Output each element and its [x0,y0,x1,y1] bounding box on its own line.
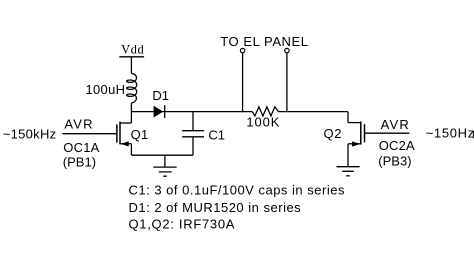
wire Vdd to inductor [130,57,132,74]
svg-text:Q2: Q2 [324,126,343,141]
svg-text:C1: 3 of 0.1uF/100V caps in se: C1: 3 of 0.1uF/100V caps in series [129,182,345,197]
svg-text:100K: 100K [246,115,280,130]
svg-text:C1: C1 [208,127,225,142]
svg-text:Q1,Q2: IRF730A: Q1,Q2: IRF730A [129,217,236,232]
wire inductor to drain node [130,103,132,112]
ground symbol 2 [337,167,360,176]
transistor Q2 source lead [348,143,361,145]
wire bus down to Q2 drain [347,112,349,123]
svg-text:D1: 2 of MUR1520 in series: D1: 2 of MUR1520 in series [129,200,302,215]
svg-text:Q1: Q1 [131,127,149,142]
transistor Q2 drain lead [348,122,361,124]
wire Q1 drain up to bus [130,112,132,123]
wire terminal 1 drop [242,53,244,112]
svg-text:100uH: 100uH [86,82,126,97]
diode D1 triangle [154,106,164,118]
truncated glyph at right edge [473,131,474,138]
svg-text:OC1A: OC1A [63,140,99,155]
svg-text:TO EL PANEL: TO EL PANEL [220,34,308,49]
inductor L1 100uH coil [127,73,137,103]
ground symbol 1 [153,167,176,176]
wire bottom rail Q1 source to C1 [131,154,193,156]
svg-text:OC2A: OC2A [379,138,415,153]
transistor Q2 channel bar [360,121,362,144]
wire Q2 source down to ground [347,144,349,167]
svg-text:(PB1): (PB1) [63,155,96,170]
svg-text:AVR: AVR [381,117,410,132]
transistor Q1 source lead [120,143,131,145]
diode D1 cathode bar [164,105,166,118]
transistor Q2 gate wire [365,132,410,134]
svg-text:Vdd: Vdd [121,42,144,56]
transistor Q1 source arrow [121,141,129,146]
capacitor C1 top lead [192,112,194,131]
wire main bus left segment [131,111,252,113]
capacitor C1 bottom lead [192,137,194,155]
power rail Vdd bar [119,56,144,58]
wire Q1 source down [130,144,132,156]
transistor Q1 gate wire [62,133,116,135]
wire terminal 2 drop [286,53,288,112]
svg-text:~150Hz: ~150Hz [426,126,474,141]
svg-text:AVR: AVR [64,117,93,132]
terminal circle 1 [240,48,244,52]
ground stub below bottom rail [164,155,166,167]
svg-text:(PB3): (PB3) [378,154,411,169]
transistor Q2 source arrow [352,141,360,146]
transistor Q2 gate bar [364,124,366,142]
wire main bus right segment [279,111,349,113]
capacitor C1 top plate [182,130,204,132]
transistor Q1 gate bar [116,124,118,142]
svg-text:~150kHz: ~150kHz [3,126,57,141]
capacitor C1 bottom plate [182,136,204,138]
terminal circle 2 [285,48,289,52]
svg-text:D1: D1 [152,88,169,103]
transistor Q1 channel bar [119,122,121,145]
transistor Q1 drain lead [120,122,131,124]
resistor R1 100K zigzag [252,107,278,116]
